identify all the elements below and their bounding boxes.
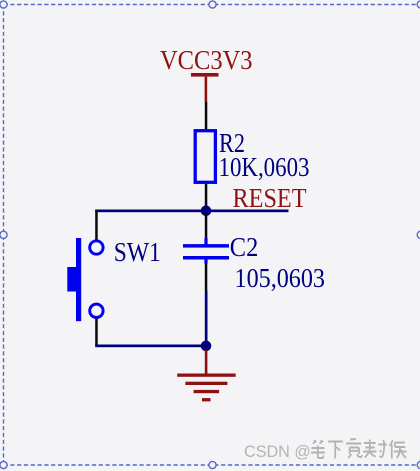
power symbol VCC3V3 bar: [191, 73, 219, 77]
selection handle top-left: [0, 1, 7, 8]
ground bar 1: [177, 374, 236, 377]
node junction at RESET: [201, 206, 212, 217]
svg-text:RESET: RESET: [233, 183, 307, 213]
capacitor C2 bottom pin: [205, 264, 208, 292]
switch SW1 bottom contact circle: [90, 304, 103, 317]
power symbol VCC3V3 stem: [205, 77, 208, 102]
watermark chinese glyph xia: [328, 442, 343, 459]
watermark chinese glyph mi: [346, 439, 362, 458]
svg-text:105,0603: 105,0603: [235, 263, 326, 293]
node junction at ground: [201, 341, 212, 352]
watermark chinese glyph feng: [363, 440, 387, 458]
ground stem: [205, 350, 208, 374]
capacitor C2 bottom plate: [183, 256, 229, 260]
selection handle bottom-left: [0, 461, 7, 468]
watermark chinese glyph bi: [311, 440, 325, 458]
ground bar 3: [194, 390, 220, 393]
selection handle middle-right: [417, 231, 420, 238]
wire bottom horizontal: [95, 345, 206, 348]
capacitor C2 bottom stub: [204, 260, 207, 264]
switch SW1 top contact circle: [90, 241, 103, 254]
capacitor C2 top pin: [205, 213, 208, 241]
switch SW1 actuator bar: [76, 238, 81, 321]
watermark chinese glyph hou: [390, 440, 407, 459]
selection handle bottom-middle: [209, 461, 216, 468]
svg-text:SW1: SW1: [114, 237, 161, 267]
svg-text:10K,0603: 10K,0603: [219, 152, 310, 182]
capacitor C2 top stub: [204, 238, 207, 245]
selection handle top-right: [417, 1, 420, 8]
svg-text:CSDN @: CSDN @: [244, 443, 311, 461]
switch SW1 button rectangle: [67, 267, 76, 292]
ground bar 2: [185, 382, 227, 385]
resistor R2 bottom pin: [205, 184, 208, 211]
resistor R2 body: [195, 131, 215, 183]
svg-text:C2: C2: [230, 232, 258, 262]
svg-text:VCC3V3: VCC3V3: [160, 45, 253, 75]
wire capacitor to ground node: [205, 291, 208, 346]
switch SW1 top pin vertical: [95, 210, 98, 240]
ground bar 4: [202, 398, 211, 401]
selection handle top-middle: [209, 1, 216, 8]
switch SW1 bottom pin vertical: [95, 319, 98, 347]
wire RESET horizontal: [95, 210, 288, 213]
resistor R2 top pin: [205, 102, 208, 131]
selection handle bottom-right: [417, 461, 420, 468]
capacitor C2 top plate: [183, 244, 229, 248]
selection handle middle-left: [0, 231, 7, 238]
